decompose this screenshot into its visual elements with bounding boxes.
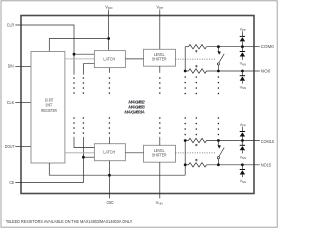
svg-text:NO0: NO0 xyxy=(261,69,271,74)
wire VDD vertical xyxy=(108,10,110,51)
GND pin stub xyxy=(108,194,110,199)
svg-text:COM0: COM0 xyxy=(261,44,275,49)
main IC box xyxy=(21,16,254,194)
resistor R4 (NO15 bleed) xyxy=(189,163,207,167)
svg-text:COM15: COM15 xyxy=(261,139,275,144)
wire CLK xyxy=(15,102,31,104)
level shifter U4 (top) xyxy=(144,49,176,66)
svg-text:LATCH: LATCH xyxy=(103,56,115,61)
wire latch column to GND xyxy=(108,161,110,194)
wire latch column stubs xyxy=(108,68,110,73)
node NO0 clamp junction xyxy=(241,70,244,73)
wire CE xyxy=(15,137,83,183)
level shifter U5 (bottom) xyxy=(144,145,176,162)
dashed control line (bottom switch) xyxy=(176,152,216,154)
node COM15 clamp junction xyxy=(241,139,244,142)
resistor R3 (COM15 bleed) xyxy=(189,138,207,142)
svg-text:DIN: DIN xyxy=(8,64,14,69)
svg-text:SHIFTER: SHIFTER xyxy=(152,57,167,62)
wire DOUT xyxy=(15,146,31,148)
VNN pin stub xyxy=(159,194,161,199)
svg-text:CLR: CLR xyxy=(7,22,14,27)
diode D5 VNN to COM15 xyxy=(240,141,245,154)
wire bottom latch to level shifter xyxy=(125,152,143,154)
diode D4 COM15 to VPP xyxy=(240,127,245,141)
diode D6 VNN to NO15 xyxy=(240,165,245,178)
svg-text:VNN: VNN xyxy=(156,200,163,206)
wire VPP vertical xyxy=(159,10,161,50)
wire SR bottom to rail xyxy=(49,163,185,175)
wire top latch to level shifter xyxy=(125,58,143,60)
wire CE into bottom latch xyxy=(83,156,94,158)
resistor R2 (NO0 bleed) xyxy=(189,69,207,73)
node CE to bottom latch xyxy=(82,156,85,159)
svg-text:*BLEED RESISTORS AVAILABLE ON: *BLEED RESISTORS AVAILABLE ON THE MAX148… xyxy=(6,219,133,224)
repetition dots columns (switch area) xyxy=(184,76,219,135)
MAX1480x part labels xyxy=(124,99,145,114)
node COM0 clamp junction xyxy=(241,45,244,48)
svg-text:GND: GND xyxy=(107,200,114,205)
wire bleed common (top channel) xyxy=(184,47,186,71)
wire bleed common (bottom channel) xyxy=(184,141,186,165)
node CLR to top latch xyxy=(73,53,76,56)
resistor R1 (COM0 bleed) xyxy=(189,45,207,49)
node VDD branch junction xyxy=(107,37,110,40)
wire data bus SR to bottom latch xyxy=(65,152,95,154)
node rail junction xyxy=(108,174,111,177)
node NO15 bleed junction xyxy=(184,163,187,166)
wire COM15 row xyxy=(185,140,188,142)
wire VDD branch to shift register xyxy=(49,39,108,52)
latch U3 (bottom) xyxy=(94,144,125,161)
node NO0 bleed junction xyxy=(184,70,187,73)
node NO15 clamp junction xyxy=(241,163,244,166)
switch SW0 xyxy=(217,45,224,72)
wire CLR into top latch xyxy=(74,53,94,55)
repetition dots columns (left) xyxy=(73,77,160,134)
svg-text:CLK: CLK xyxy=(7,100,15,105)
svg-text:MAX14803A: MAX14803A xyxy=(124,110,144,115)
wire bleed common drop (bottom channel) xyxy=(184,165,186,175)
svg-text:NO15: NO15 xyxy=(261,162,272,167)
wire COM0 row xyxy=(185,46,188,48)
wire data bus SR to top latch xyxy=(65,58,95,60)
wire CLR xyxy=(15,25,74,75)
wire NO15 row xyxy=(185,164,188,166)
latch U2 (top) xyxy=(94,51,125,68)
diode D3 VNN to NO0 xyxy=(240,71,245,84)
node COM15 bleed junction xyxy=(184,139,187,142)
wire level shifter column to VNN xyxy=(159,162,161,193)
svg-text:REGISTER: REGISTER xyxy=(41,108,57,113)
wire CE upper segment into top latch xyxy=(83,64,94,75)
svg-text:DOUT: DOUT xyxy=(5,144,15,149)
diode D1 COM0 to VPP xyxy=(240,31,245,46)
wire CLR lower segment into bottom latch xyxy=(74,137,94,148)
dashed control line (top switch) xyxy=(176,58,216,60)
svg-text:LATCH: LATCH xyxy=(103,150,115,155)
svg-text:CE: CE xyxy=(9,180,14,185)
svg-text:SHIFTER: SHIFTER xyxy=(152,153,167,158)
svg-text:SHIFT: SHIFT xyxy=(46,103,53,108)
shift register U1 xyxy=(31,52,65,164)
wire NO0 row xyxy=(185,70,188,72)
diode D2 VNN to COM0 xyxy=(240,47,245,60)
wire level shifter column stubs xyxy=(159,66,161,73)
switch SW15 xyxy=(217,139,224,166)
wire DIN xyxy=(15,66,31,68)
